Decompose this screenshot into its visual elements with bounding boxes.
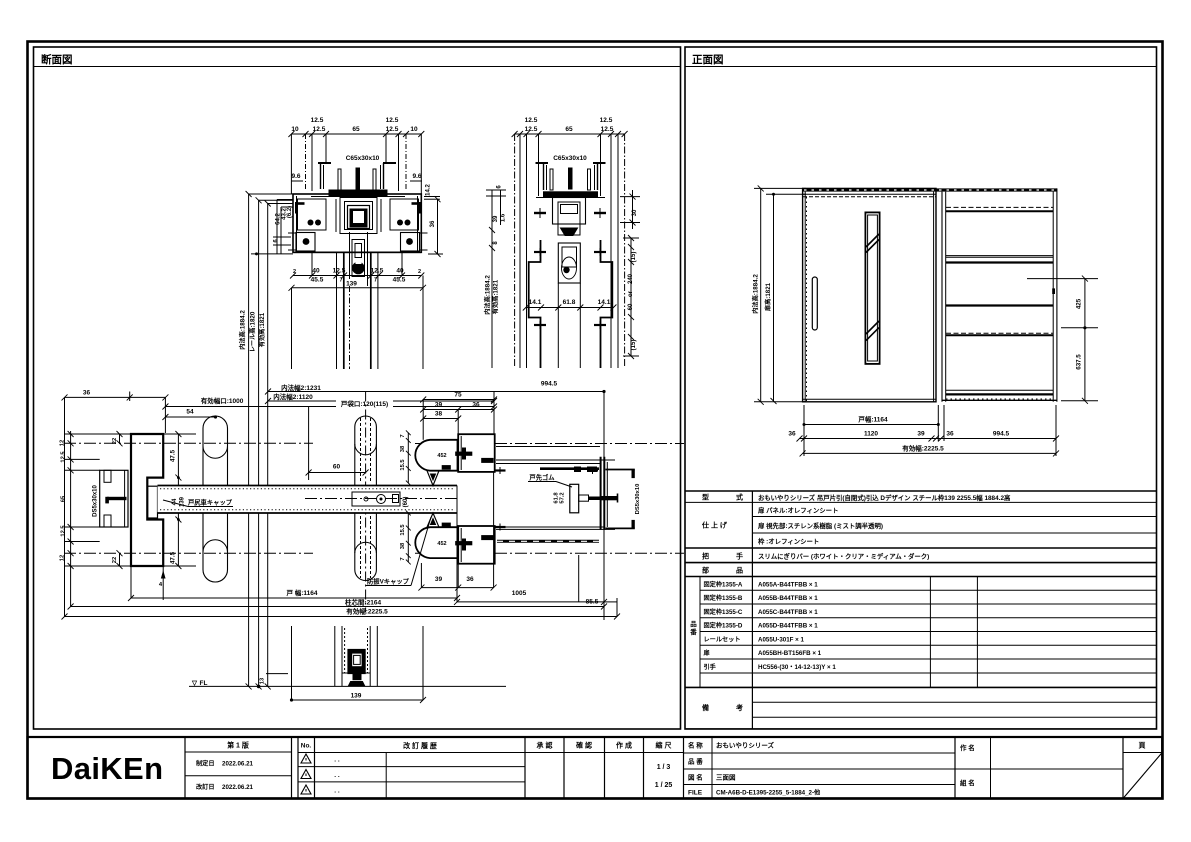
- svg-text:品: 品: [690, 619, 697, 628]
- svg-text:452: 452: [437, 541, 446, 547]
- pocket screen unit: [941, 192, 943, 402]
- svg-text:枠 :オレフィンシート: 枠 :オレフィンシート: [758, 537, 819, 546]
- svg-text:式: 式: [736, 493, 743, 502]
- svg-text:把: 把: [702, 552, 709, 561]
- centre hanger assembly A: [340, 198, 377, 234]
- sub box A right: [390, 199, 419, 230]
- svg-text:1 / 25: 1 / 25: [655, 782, 673, 789]
- svg-text:36: 36: [83, 390, 91, 397]
- svg-text:A055A-B44TFBB × 1: A055A-B44TFBB × 1: [758, 582, 818, 589]
- svg-text:名 称: 名 称: [688, 741, 703, 750]
- guide pill pair 1: [203, 416, 228, 582]
- svg-text:扉 パネル:オレフィンシート: 扉 パネル:オレフィンシート: [758, 506, 838, 515]
- svg-text:14.2: 14.2: [426, 184, 432, 196]
- svg-text:12.5: 12.5: [525, 117, 538, 124]
- svg-text:スリムにぎりバー (ホワイト・クリア・ミディアム・ダーク): スリムにぎりバー (ホワイト・クリア・ミディアム・ダーク): [758, 552, 929, 561]
- svg-text:有効幅:2225.5: 有効幅:2225.5: [346, 607, 388, 616]
- head section B dimension line: [515, 133, 625, 135]
- title block verticals: [184, 737, 186, 799]
- hanger bracket B: [553, 198, 586, 225]
- section A bottom line: [293, 251, 421, 253]
- svg-text:CM-A6B-D-E1395-2255_5-1884_2-他: CM-A6B-D-E1395-2255_5-1884_2-他: [716, 789, 821, 797]
- svg-text:10: 10: [291, 126, 299, 133]
- svg-text:36: 36: [946, 431, 954, 438]
- svg-text:FILE: FILE: [688, 790, 703, 797]
- svg-text:扉 視先部:スチレン系樹脂 (ミスト調半透明): 扉 視先部:スチレン系樹脂 (ミスト調半透明): [758, 521, 883, 530]
- svg-text:型: 型: [702, 493, 709, 502]
- svg-text:戸 幅:1164: 戸 幅:1164: [286, 588, 317, 597]
- svg-text:番: 番: [689, 627, 697, 636]
- svg-text:作 名: 作 名: [960, 743, 975, 752]
- svg-text:1005: 1005: [512, 590, 527, 597]
- top rail black band A: [329, 190, 388, 197]
- svg-text:10: 10: [410, 126, 418, 133]
- svg-text:確 認: 確 認: [576, 741, 592, 750]
- svg-text:12.5: 12.5: [386, 117, 399, 124]
- svg-text:改 訂 履 歴: 改 訂 履 歴: [403, 741, 437, 750]
- svg-text:FL: FL: [200, 680, 208, 687]
- svg-text:39: 39: [435, 402, 443, 409]
- latch bolt: [601, 496, 617, 500]
- svg-text:9.6: 9.6: [412, 173, 421, 180]
- latch keeps upper: [540, 467, 599, 470]
- svg-text:38: 38: [400, 542, 406, 549]
- hanger roller housing A: [349, 232, 351, 286]
- wall profile B right: [601, 240, 613, 368]
- tall height dimension lines: [248, 194, 250, 686]
- svg-text:部: 部: [702, 566, 709, 575]
- svg-text:戸尻車キャップ: 戸尻車キャップ: [188, 498, 233, 507]
- svg-text:2: 2: [418, 269, 421, 275]
- svg-text:有効高:1821: 有効高:1821: [492, 279, 500, 314]
- svg-text:仕 上 げ: 仕 上 げ: [701, 521, 728, 530]
- pocket post (left jamb): [131, 434, 163, 566]
- svg-text:60: 60: [333, 464, 341, 471]
- front view dim extension lines: [803, 405, 805, 456]
- svg-text:47.5: 47.5: [170, 551, 177, 564]
- svg-text:おもいやりシリーズ 吊戸片引(自閉式)引込 Dデザイン スチ: おもいやりシリーズ 吊戸片引(自閉式)引込 Dデザイン スチール枠139 225…: [758, 493, 1011, 502]
- svg-text:引手: 引手: [704, 663, 717, 671]
- latch plate in band: [352, 492, 400, 506]
- svg-text:139: 139: [346, 281, 357, 288]
- door handle: [812, 277, 817, 330]
- svg-text:有効幅口:1000: 有効幅口:1000: [201, 396, 244, 405]
- plan dim 有効幅口:1000 and 戸袋口: [65, 396, 166, 398]
- svg-text:2022.06.21: 2022.06.21: [222, 761, 254, 768]
- svg-text:36: 36: [466, 576, 474, 583]
- svg-text:12.5: 12.5: [311, 117, 324, 124]
- svg-text:45.5: 45.5: [311, 277, 324, 284]
- upper pocket mouth box: [458, 434, 495, 472]
- svg-text:固定枠1355-A: 固定枠1355-A: [704, 581, 743, 589]
- door end cap: [570, 484, 579, 513]
- svg-text:C65x30x10: C65x30x10: [553, 155, 587, 162]
- svg-text:40: 40: [396, 268, 404, 275]
- svg-text:7: 7: [400, 557, 406, 560]
- svg-text:85.5: 85.5: [586, 599, 599, 606]
- svg-text:22: 22: [112, 557, 118, 563]
- svg-text:柱芯間:2164: 柱芯間:2164: [345, 598, 382, 607]
- latch frame C-shape: [605, 469, 634, 471]
- svg-text:. .: . .: [334, 757, 340, 764]
- front view right dims 425 / 637.5: [1027, 278, 1098, 280]
- glazing reflection hatches: [866, 240, 879, 253]
- svg-text:15.5: 15.5: [400, 459, 406, 471]
- svg-text:内法高:1884.2: 内法高:1884.2: [752, 274, 760, 314]
- svg-text:A055C-B44TFBB × 1: A055C-B44TFBB × 1: [758, 609, 818, 616]
- svg-text:65: 65: [352, 126, 360, 133]
- svg-text:▽: ▽: [191, 680, 198, 687]
- svg-text:47.5: 47.5: [170, 449, 177, 462]
- hanger C-channel A: [318, 162, 331, 164]
- svg-text:戸袋口:120(115): 戸袋口:120(115): [341, 399, 388, 408]
- svg-text:A055B-B44TFBB × 1: A055B-B44TFBB × 1: [758, 595, 818, 602]
- svg-text:12.5: 12.5: [61, 525, 67, 537]
- svg-text:内法高:1884.2: 内法高:1884.2: [239, 310, 247, 350]
- svg-text:. .: . .: [334, 772, 340, 779]
- svg-text:36: 36: [788, 431, 796, 438]
- svg-text:9.6: 9.6: [291, 173, 300, 180]
- head section B long extension lines: [514, 134, 516, 368]
- title block outer: [28, 737, 1163, 799]
- svg-text:承 認: 承 認: [537, 741, 553, 750]
- front view height dims: [760, 188, 762, 401]
- svg-text:. .: . .: [334, 788, 340, 795]
- door jamb (right): [600, 457, 602, 530]
- svg-text:36: 36: [472, 402, 480, 409]
- svg-text:65: 65: [565, 126, 573, 133]
- door band (plan): [158, 486, 458, 514]
- svg-text:有効高:1821: 有効高:1821: [258, 312, 266, 347]
- svg-text:有効幅:2225.5: 有効幅:2225.5: [902, 444, 944, 453]
- sill section verticals: [334, 626, 336, 686]
- svg-text:452: 452: [437, 453, 446, 459]
- head section A extension lines: [290, 134, 292, 194]
- svg-text:44: 44: [172, 498, 178, 505]
- svg-text:戸先ゴム: 戸先ゴム: [529, 473, 555, 482]
- svg-text:断面図: 断面図: [41, 53, 73, 66]
- svg-text:637.5: 637.5: [1076, 354, 1083, 370]
- svg-text:改訂日: 改訂日: [196, 783, 215, 791]
- upper V guide: [427, 471, 439, 486]
- left panel frame: [34, 47, 681, 729]
- wall cross marks B: [534, 251, 546, 253]
- svg-text:作 成: 作 成: [616, 741, 632, 750]
- svg-text:39: 39: [435, 576, 443, 583]
- pocket cap piece: [147, 486, 157, 518]
- sub box A left: [295, 202, 305, 205]
- svg-text:(15): (15): [631, 252, 637, 263]
- svg-text:A055D-B44TFBB × 1: A055D-B44TFBB × 1: [758, 623, 818, 630]
- svg-text:75: 75: [454, 392, 462, 399]
- svg-text:994.5: 994.5: [993, 431, 1010, 438]
- spec table horizontal lines: [685, 490, 1156, 492]
- svg-text:1.6: 1.6: [501, 213, 507, 222]
- svg-text:品 番: 品 番: [688, 757, 703, 766]
- svg-text:36: 36: [430, 220, 436, 227]
- svg-text:DS5x30x10: DS5x30x10: [93, 484, 99, 516]
- wall centre dash-dot lines: [64, 442, 313, 444]
- svg-text:組 名: 組 名: [960, 778, 975, 787]
- svg-text:12.5: 12.5: [61, 451, 67, 463]
- svg-text:54: 54: [186, 409, 194, 416]
- svg-text:14.1: 14.1: [529, 299, 542, 306]
- door glazing slot: [865, 212, 879, 364]
- svg-text:備: 備: [702, 703, 709, 712]
- latch keeps lower: [497, 540, 599, 543]
- svg-text:内法幅2:1120: 内法幅2:1120: [273, 392, 313, 401]
- svg-text:2022.06.21: 2022.06.21: [222, 784, 254, 791]
- svg-text:14.1: 14.1: [598, 299, 611, 306]
- frame head outer box A: [293, 194, 421, 252]
- svg-text:12.5: 12.5: [600, 117, 613, 124]
- wall cross marks plan right: [495, 469, 506, 471]
- svg-text:39: 39: [917, 431, 925, 438]
- svg-text:第 1 版: 第 1 版: [227, 741, 249, 750]
- lower V guide: [427, 513, 439, 527]
- svg-text:15.5: 15.5: [400, 524, 406, 536]
- svg-text:C65x30x10: C65x30x10: [346, 155, 380, 162]
- guide pill pair 2: [355, 416, 377, 581]
- svg-text:DS5x30x10: DS5x30x10: [635, 484, 641, 515]
- svg-text:防振Vキャップ: 防振Vキャップ: [367, 577, 410, 586]
- svg-text:縮 尺: 縮 尺: [656, 741, 672, 750]
- upper hanger bracket: [415, 440, 457, 471]
- svg-text:(60): (60): [403, 497, 409, 508]
- spec table vertical lines: [751, 491, 753, 729]
- svg-text:38: 38: [400, 445, 406, 452]
- bracket side tabs B: [534, 212, 546, 214]
- svg-text:手: 手: [736, 552, 743, 561]
- floor guide block: [349, 650, 365, 673]
- svg-text:A055BH-BT156FB × 1: A055BH-BT156FB × 1: [758, 650, 822, 657]
- svg-text:A055U-301F × 1: A055U-301F × 1: [758, 636, 804, 643]
- wall profile B left: [529, 240, 541, 368]
- right panel frame: [685, 47, 1157, 729]
- hanger bolts A: [338, 169, 341, 190]
- svg-text:65: 65: [61, 495, 67, 502]
- svg-text:正面図: 正面図: [692, 54, 724, 66]
- svg-text:HC556-(30・14-12-13)Y × 1: HC556-(30・14-12-13)Y × 1: [758, 664, 836, 671]
- svg-text:45.5: 45.5: [393, 277, 406, 284]
- svg-text:レールセット: レールセット: [704, 636, 741, 643]
- svg-text:おもいやりシリーズ: おもいやりシリーズ: [716, 741, 775, 750]
- lower hanger bracket: [415, 527, 457, 558]
- svg-text:(6.2): (6.2): [287, 206, 293, 218]
- svg-text:No.: No.: [301, 743, 312, 750]
- svg-text:139: 139: [351, 693, 362, 700]
- right side horizontal wall lines: [496, 446, 600, 448]
- svg-text:425: 425: [1076, 298, 1083, 309]
- svg-text:考: 考: [736, 703, 743, 712]
- top rail black band B: [543, 191, 598, 197]
- svg-text:扉: 扉: [703, 649, 710, 657]
- head section A top dimension line: [291, 133, 421, 135]
- svg-text:(15): (15): [631, 340, 637, 351]
- pill 2 inner rail dashes: [360, 418, 362, 482]
- svg-text:固定枠1355-D: 固定枠1355-D: [704, 622, 743, 630]
- svg-text:頁: 頁: [1139, 742, 1146, 750]
- svg-text:57.2: 57.2: [560, 492, 566, 503]
- svg-text:1120: 1120: [864, 431, 878, 438]
- svg-text:制定日: 制定日: [196, 760, 215, 768]
- svg-text:38: 38: [435, 411, 443, 418]
- pocket screen rails: [946, 206, 1053, 208]
- svg-text:13: 13: [260, 677, 266, 684]
- hanger C-channel B: [536, 162, 549, 164]
- svg-text:内法幅2:1231: 内法幅2:1231: [281, 383, 321, 392]
- svg-text:7: 7: [400, 434, 406, 437]
- left outer frame DS5x30x10: [100, 470, 128, 527]
- 139 dim below FL: [291, 626, 293, 700]
- front door outline: [803, 188, 936, 401]
- section A wall continuation verticals: [291, 288, 293, 369]
- svg-text:61.8: 61.8: [563, 299, 576, 306]
- lower pocket mouth box: [458, 526, 495, 564]
- door top section B: [558, 243, 580, 283]
- svg-text:三面図: 三面図: [716, 773, 736, 782]
- FL line: [189, 685, 506, 687]
- svg-text:戸幅:1164: 戸幅:1164: [858, 415, 888, 424]
- svg-text:レール高:1820: レール高:1820: [249, 311, 257, 352]
- svg-text:固定枠1355-C: 固定枠1355-C: [704, 608, 743, 616]
- svg-text:品: 品: [736, 566, 743, 575]
- svg-text:扉高:1821: 扉高:1821: [764, 282, 772, 312]
- svg-text:1 / 3: 1 / 3: [657, 764, 671, 771]
- svg-text:994.5: 994.5: [541, 381, 558, 388]
- svg-text:DaiKEn: DaiKEn: [51, 751, 163, 786]
- svg-text:図 名: 図 名: [688, 773, 703, 782]
- svg-text:39: 39: [493, 215, 499, 222]
- svg-text:内法高:1884.2: 内法高:1884.2: [484, 275, 492, 315]
- svg-text:12.5: 12.5: [525, 126, 538, 133]
- svg-text:固定枠1355-B: 固定枠1355-B: [704, 594, 743, 602]
